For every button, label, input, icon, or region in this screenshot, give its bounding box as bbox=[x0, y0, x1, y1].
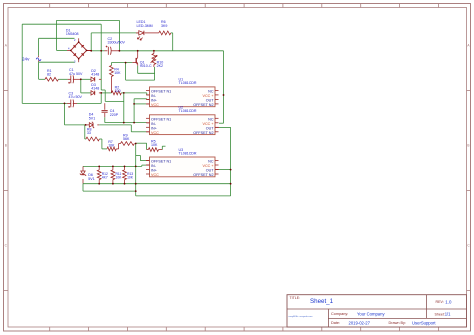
svg-text:1N5408: 1N5408 bbox=[66, 32, 79, 36]
svg-text:24v: 24v bbox=[22, 56, 30, 61]
svg-text:NC: NC bbox=[208, 117, 214, 121]
svg-text:4148: 4148 bbox=[91, 86, 99, 90]
svg-text:easyEDA - easyeda.com: easyEDA - easyeda.com bbox=[289, 315, 313, 318]
svg-text:OFFSET N1: OFFSET N1 bbox=[151, 117, 171, 121]
svg-text:B: B bbox=[467, 144, 469, 148]
svg-text:10K: 10K bbox=[151, 143, 158, 147]
svg-text:TL081CDR: TL081CDR bbox=[179, 109, 197, 113]
svg-text:56K: 56K bbox=[123, 137, 130, 141]
svg-text:4K7: 4K7 bbox=[102, 176, 108, 180]
svg-text:OFFSET N2: OFFSET N2 bbox=[193, 173, 213, 177]
svg-text:VCC: VCC bbox=[151, 173, 159, 177]
svg-text:3K9: 3K9 bbox=[161, 24, 167, 28]
svg-text:LED-3MM: LED-3MM bbox=[137, 24, 153, 28]
svg-text:TL081CDR: TL081CDR bbox=[179, 151, 197, 155]
svg-text:33: 33 bbox=[87, 131, 91, 135]
svg-text:1.0: 1.0 bbox=[445, 299, 452, 304]
svg-text:9010-C: 9010-C bbox=[140, 64, 152, 68]
svg-text:10K: 10K bbox=[114, 71, 121, 75]
svg-text:82: 82 bbox=[47, 73, 51, 77]
svg-text:OFFSET N2: OFFSET N2 bbox=[193, 131, 213, 135]
svg-text:5V1: 5V1 bbox=[88, 177, 94, 181]
svg-text:47u 50V: 47u 50V bbox=[69, 72, 83, 76]
svg-text:TL081CDR: TL081CDR bbox=[179, 81, 197, 85]
svg-text:2019-02-27: 2019-02-27 bbox=[349, 320, 371, 325]
svg-text:VCC: VCC bbox=[151, 131, 159, 135]
svg-text:OUT: OUT bbox=[206, 98, 215, 102]
svg-text:Company:: Company: bbox=[331, 312, 348, 316]
svg-text:Your Company: Your Company bbox=[357, 312, 385, 317]
svg-text:OUT: OUT bbox=[206, 126, 215, 130]
svg-text:10K: 10K bbox=[127, 176, 134, 180]
svg-text:OFFSET N1: OFFSET N1 bbox=[151, 89, 171, 93]
svg-text:VCC +: VCC + bbox=[203, 122, 214, 126]
svg-text:2K2: 2K2 bbox=[157, 64, 163, 68]
svg-text:REV:: REV: bbox=[436, 300, 444, 304]
svg-text:VCC +: VCC + bbox=[203, 164, 214, 168]
svg-text:10K: 10K bbox=[116, 176, 123, 180]
svg-text:IN+: IN+ bbox=[151, 126, 157, 130]
svg-text:NC: NC bbox=[208, 160, 214, 164]
svg-text:47u 50V: 47u 50V bbox=[69, 95, 83, 99]
svg-text:OUT: OUT bbox=[206, 169, 215, 173]
svg-text:IN+: IN+ bbox=[151, 98, 157, 102]
svg-text:1/1: 1/1 bbox=[445, 312, 451, 317]
svg-text:IN-: IN- bbox=[151, 164, 157, 168]
svg-text:IN-: IN- bbox=[151, 122, 157, 126]
svg-text:3300u/50V: 3300u/50V bbox=[108, 41, 126, 45]
svg-text:4148: 4148 bbox=[91, 73, 99, 77]
svg-text:220P: 220P bbox=[110, 113, 119, 117]
svg-text:10K: 10K bbox=[108, 144, 115, 148]
svg-text:IN-: IN- bbox=[151, 94, 157, 98]
svg-text:Drawn By:: Drawn By: bbox=[389, 321, 407, 325]
svg-text:OFFSET N1: OFFSET N1 bbox=[151, 160, 171, 164]
svg-text:B: B bbox=[5, 144, 7, 148]
svg-text:220: 220 bbox=[115, 89, 121, 93]
svg-text:OFFSET N2: OFFSET N2 bbox=[193, 103, 213, 107]
svg-text:5V1: 5V1 bbox=[89, 116, 95, 120]
svg-text:VCC +: VCC + bbox=[203, 94, 214, 98]
svg-text:Date:: Date: bbox=[331, 321, 340, 325]
svg-text:IN+: IN+ bbox=[151, 169, 157, 173]
svg-text:Sheet_1: Sheet_1 bbox=[310, 298, 334, 305]
svg-text:NC: NC bbox=[208, 89, 214, 93]
svg-text:VCC: VCC bbox=[151, 103, 159, 107]
svg-text:TITLE:: TITLE: bbox=[290, 296, 301, 300]
svg-text:UserSupport: UserSupport bbox=[412, 320, 436, 325]
svg-text:Sheet:: Sheet: bbox=[435, 312, 445, 316]
